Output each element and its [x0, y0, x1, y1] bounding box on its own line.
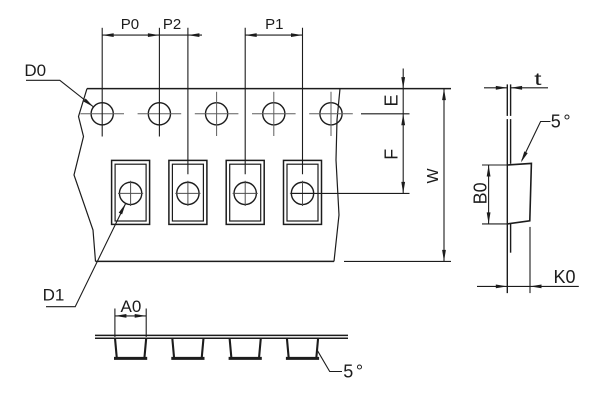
tape bottom edge left segment	[96, 260, 335, 262]
bottom view pocket 3	[230, 338, 232, 358]
svg-text:K0: K0	[554, 267, 576, 287]
tape top edge	[87, 88, 451, 90]
pocket 4 outer	[284, 160, 322, 224]
dimension line E/F vertical	[402, 69, 404, 194]
bottom view tape line lower	[95, 337, 348, 339]
dimension line K0	[477, 285, 579, 287]
svg-text:5°: 5°	[551, 112, 571, 132]
dimension P0 extension line right	[158, 28, 160, 137]
sprocket hole 5	[320, 103, 342, 125]
leader 5 deg bottom	[317, 350, 342, 371]
svg-text:P2: P2	[163, 16, 181, 33]
leader D1	[46, 203, 126, 306]
dimension line P2	[159, 34, 202, 36]
pocket 3 inner	[230, 164, 261, 221]
dimension line W	[443, 89, 445, 262]
svg-text:P0: P0	[121, 16, 139, 33]
dimension P2 extension line	[187, 28, 189, 175]
pocket 2 inner	[172, 164, 203, 221]
bottom view tape line upper	[95, 334, 348, 336]
sprocket hole 2	[148, 103, 170, 125]
tape bottom edge right segment (W extension)	[344, 260, 451, 262]
sprocket hole 1	[91, 103, 113, 125]
bottom view pocket 4	[287, 338, 289, 358]
svg-text:F: F	[381, 149, 401, 160]
dimension t	[484, 87, 507, 89]
svg-text:E: E	[382, 94, 402, 106]
bottom view pocket 2	[172, 338, 174, 358]
svg-text:P1: P1	[265, 16, 283, 33]
bottom view pocket 1	[115, 338, 117, 358]
dimension P1 extension line left	[244, 28, 246, 175]
dimension B0 extension top	[482, 164, 507, 166]
svg-text:D1: D1	[43, 286, 65, 305]
tape left break edge	[74, 89, 96, 262]
dimension line P1	[245, 34, 302, 36]
pocket 1 outer	[112, 160, 150, 224]
sprocket hole 4	[263, 103, 285, 125]
sprocket hole 3	[206, 103, 228, 125]
svg-text:B0: B0	[470, 182, 490, 204]
dimension E/F extension line (hole centerline)	[361, 113, 410, 115]
svg-text:t: t	[534, 69, 542, 89]
pocket 4 circle	[291, 182, 313, 204]
side view tape line right	[510, 84, 512, 116]
dimension F extension line (pocket centerline)	[291, 192, 410, 194]
dimension P0 extension line left	[101, 28, 103, 137]
svg-text:5°: 5°	[343, 361, 363, 381]
dimension K0 extension right	[529, 227, 531, 293]
dimension line B0	[488, 165, 490, 224]
pocket 3 outer	[226, 160, 264, 224]
tape right break edge	[334, 89, 340, 262]
dimension line A0	[115, 315, 146, 317]
svg-text:W: W	[425, 168, 442, 184]
pocket 2 outer	[169, 160, 207, 224]
pocket 2 circle	[177, 182, 199, 204]
pocket 1 circle	[119, 182, 141, 204]
side view tape line left	[506, 84, 508, 116]
pocket 1 inner	[115, 164, 146, 221]
side view pocket	[507, 163, 531, 224]
dimension A0 extension lines	[114, 309, 116, 338]
svg-text:D0: D0	[24, 61, 46, 80]
dimension B0 extension bottom	[482, 223, 507, 225]
leader D0	[26, 80, 94, 107]
pocket 4 inner	[287, 164, 318, 221]
pocket 3 circle	[234, 182, 256, 204]
leader 5 deg side	[522, 122, 551, 161]
svg-text:A0: A0	[121, 297, 142, 316]
dimension line P0	[102, 34, 159, 36]
dimension P1 extension line right	[302, 28, 304, 175]
